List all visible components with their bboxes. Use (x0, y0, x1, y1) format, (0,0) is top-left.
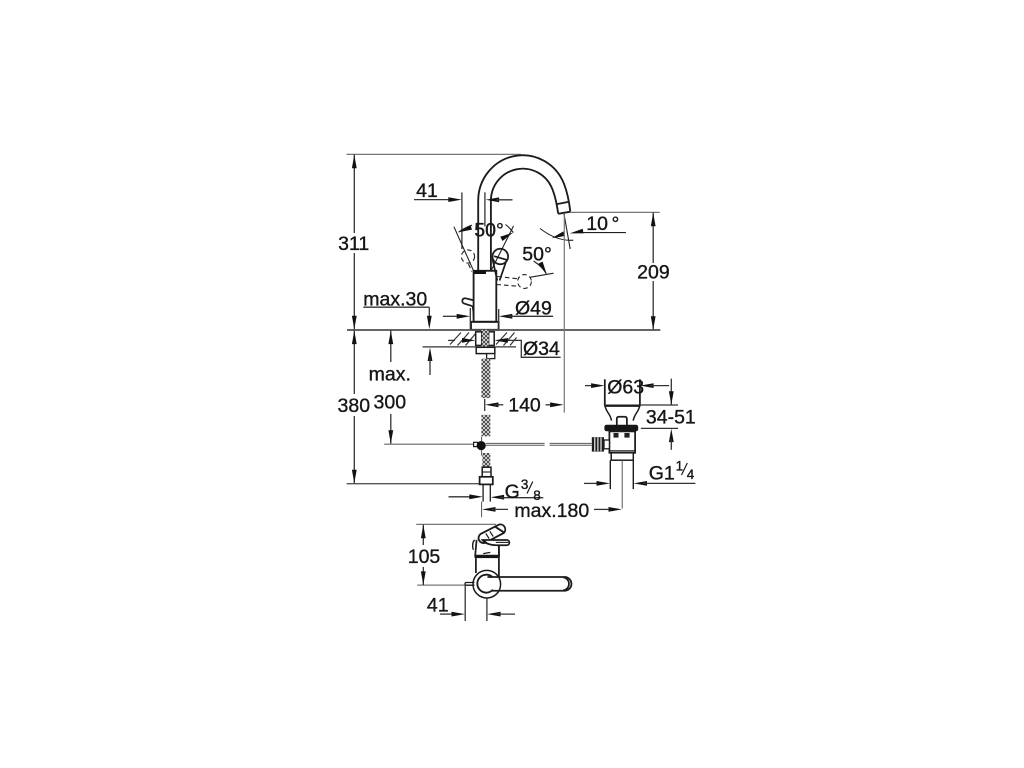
G3/8 connector (482, 467, 491, 477)
svg-text:G1: G1 (649, 463, 675, 485)
counter hatch left (450, 333, 477, 346)
deck bottom line (423, 346, 517, 348)
dimension 140 (485, 402, 499, 407)
horizontal pop-up rod (486, 443, 592, 445)
svg-text:Ø63: Ø63 (607, 376, 644, 398)
drain knurled knob (592, 437, 604, 451)
rod small link (474, 442, 478, 446)
svg-text:1: 1 (676, 459, 684, 474)
dimension 209 (652, 212, 654, 330)
supply hose upper (482, 359, 491, 399)
dimension D34 (448, 339, 455, 341)
shank washers (476, 332, 495, 346)
drain taper (605, 407, 639, 421)
svg-text:3: 3 (521, 477, 529, 492)
bottom lower reference line (417, 584, 473, 586)
svg-text:Ø34: Ø34 (523, 338, 560, 360)
faucet centerline lower (481, 437, 483, 441)
drain lift knob (617, 417, 627, 425)
spout tip aerator (557, 202, 571, 214)
supply hose lower (482, 453, 490, 467)
dimension 380 (353, 331, 355, 484)
hose bottom reference line (347, 483, 480, 485)
lever axis left (454, 227, 474, 272)
shank nut (476, 347, 495, 353)
countertop line (347, 329, 660, 331)
top reference line (347, 153, 522, 155)
svg-text:max.: max. (369, 364, 411, 386)
svg-text:4: 4 (687, 467, 695, 482)
dimension 41 bottom (440, 613, 452, 615)
drain flange (604, 425, 638, 432)
drain centerline (621, 460, 623, 508)
svg-text:380: 380 (338, 395, 371, 417)
dimension 34-51 (640, 404, 678, 406)
faucet body (471, 271, 499, 330)
dimension D63 (585, 385, 591, 387)
drain cup (604, 379, 640, 405)
svg-text:300: 300 (374, 392, 407, 414)
dimension G1 1/4 (584, 482, 597, 484)
lever tilted left dashed (461, 250, 474, 272)
spout (478, 155, 570, 271)
dimension max.180 (482, 507, 496, 512)
svg-text:41: 41 (416, 180, 438, 202)
spout vertical extension line (563, 215, 565, 413)
body side tab (462, 298, 474, 306)
svg-text:105: 105 (408, 546, 441, 568)
drain body (609, 431, 635, 452)
dimension G3/8 (449, 496, 471, 498)
G3/8 tail pipe (483, 485, 490, 502)
svg-text:311: 311 (338, 233, 369, 255)
svg-text:209: 209 (637, 262, 670, 284)
41 reference lines (464, 586, 466, 622)
shank threaded stud (482, 330, 489, 348)
left tab (465, 583, 475, 586)
cartridge dark band (475, 556, 500, 559)
pivot outer circle (473, 570, 501, 598)
drain tail pipe (610, 460, 633, 489)
lever tilted right dashed (497, 275, 532, 289)
pivot inner circle (477, 575, 493, 593)
drain nut (611, 453, 633, 460)
dimension 311 (353, 155, 355, 330)
cartridge body (475, 540, 499, 556)
svg-text:50°: 50° (474, 219, 504, 241)
lever horizontal blade (482, 540, 509, 545)
handle bar (488, 577, 572, 591)
spout tip reference line (570, 211, 660, 213)
drain pointer detail (606, 443, 612, 447)
counter hatch right (496, 333, 517, 346)
svg-text:10°: 10° (586, 213, 619, 235)
dimension max.300 (390, 331, 392, 444)
bottom top reference line (416, 523, 496, 525)
dimension 105 (422, 525, 424, 585)
body top dark mark (475, 271, 487, 274)
svg-text:34-51: 34-51 (646, 406, 696, 428)
lever blade side profile (479, 524, 506, 543)
svg-text:max.180: max.180 (514, 500, 589, 522)
lever upright solid (491, 226, 513, 271)
svg-text:50°: 50° (522, 243, 552, 265)
column (476, 546, 499, 578)
svg-text:140: 140 (508, 394, 541, 416)
svg-text:41: 41 (427, 595, 449, 617)
pop-up rod reference line (384, 443, 473, 445)
front tip sliver (473, 540, 475, 550)
rod ball joint (477, 441, 486, 450)
